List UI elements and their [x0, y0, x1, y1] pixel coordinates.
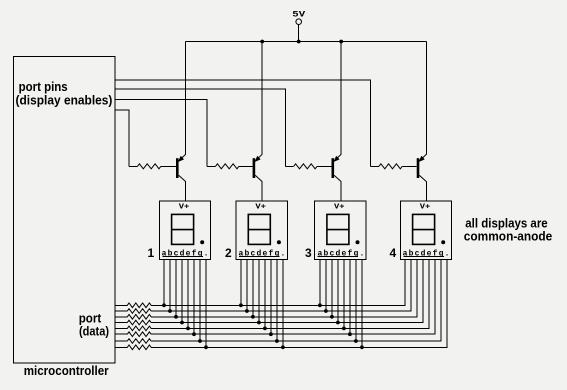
wire: data line 4 from MCU port to DS4 pin d [115, 259, 423, 322]
7-segment display DS1 (common anode) [159, 201, 210, 259]
wire: DS3 pin e to data line 5, with junction [342, 259, 346, 330]
resistor on data line 1 (segment a) [127, 303, 151, 308]
label: all displays are common-anode [464, 215, 553, 243]
transistor Q1 (PNP driver) [176, 154, 186, 181]
wire: DS3 pin g to data line 7, with junction [354, 259, 358, 343]
svg-text:g: g [198, 249, 203, 258]
svg-text:f: f [192, 249, 197, 258]
wire: DS1 pin f to data line 6, with junction [192, 259, 196, 336]
wire: Q4 collector to DS4 V+ [425, 182, 427, 202]
svg-text:e: e [427, 249, 432, 258]
svg-text:g: g [353, 249, 358, 258]
svg-text:a: a [317, 249, 322, 258]
resistor R4 (base resistor of Q4) [371, 164, 417, 169]
wire: DS2 pin f to data line 6, with junction [269, 259, 273, 336]
label: port pins (display enables) [16, 79, 113, 108]
resistor on data line 2 (segment b) [127, 309, 151, 314]
svg-text:c: c [250, 249, 255, 258]
wire: DS1 pin c to data line 3, with junction [174, 259, 178, 318]
wire: display-enable 2 from MCU port pin to R2 [115, 99, 207, 166]
svg-text:b: b [168, 249, 173, 258]
resistor on data line 7 (segment g) [127, 339, 151, 344]
resistor R1 (base resistor of Q1) [129, 164, 176, 169]
svg-text:c: c [415, 249, 420, 258]
svg-text:f: f [347, 249, 352, 258]
wire: DS2 pin a to data line 1, with junction [239, 259, 243, 307]
svg-text:f: f [268, 249, 273, 258]
7-segment display DS3 (common anode) [315, 201, 366, 259]
svg-text:b: b [244, 249, 249, 258]
svg-text:g: g [274, 249, 279, 258]
svg-text:common-anode: common-anode [464, 229, 553, 244]
wire: DS2 pin . to data line 8, with junction [281, 259, 285, 349]
svg-text:V+: V+ [255, 203, 266, 211]
svg-text:4: 4 [390, 246, 397, 260]
wire: data line 8 from MCU port to DS4 pin . [115, 259, 447, 347]
wire: Q2 collector to DS2 V+ [261, 182, 263, 202]
transistor Q4 (PNP driver) [417, 154, 427, 181]
svg-text:c: c [329, 249, 334, 258]
wire: DS1 pin . to data line 8, with junction [204, 259, 208, 349]
svg-text:g: g [439, 249, 444, 258]
svg-text:a: a [162, 249, 167, 258]
svg-text:.: . [445, 249, 450, 258]
7-segment display DS2 (common anode) [236, 201, 287, 259]
svg-text:a: a [238, 249, 243, 258]
wire: data line 3 from MCU port to DS4 pin c [115, 259, 417, 316]
resistor on data line 6 (segment f) [127, 332, 151, 337]
svg-text:V+: V+ [334, 203, 345, 211]
wire: DS2 pin c to data line 3, with junction [251, 259, 255, 318]
resistor R2 (base resistor of Q2) [207, 164, 252, 169]
svg-text:5V: 5V [292, 10, 306, 20]
7-segment display DS4 (common anode) [400, 201, 451, 259]
svg-text:1: 1 [148, 246, 155, 260]
wire: Q1 collector to DS1 V+ [185, 182, 187, 202]
svg-text:2: 2 [225, 246, 232, 260]
wire: DS2 pin e to data line 5, with junction [263, 259, 267, 330]
svg-text:d: d [335, 249, 340, 258]
label: port (data) [79, 311, 109, 339]
svg-text:d: d [180, 249, 185, 258]
wire: DS3 pin f to data line 6, with junction [348, 259, 352, 336]
svg-text:(display enables): (display enables) [16, 92, 113, 107]
svg-text:e: e [262, 249, 267, 258]
wire: display-enable 3 from MCU port pin to R3 [115, 89, 285, 166]
svg-text:3: 3 [305, 246, 312, 260]
wire: data line 1 from MCU port to DS4 pin a [115, 259, 405, 305]
svg-text:f: f [433, 249, 438, 258]
wire: DS3 pin . to data line 8, with junction [360, 259, 364, 349]
wire: DS1 pin e to data line 5, with junction [186, 259, 190, 330]
label: display position digit 4 [390, 246, 397, 260]
wire: display-enable 4 from MCU port pin to R4 [115, 80, 371, 166]
wire: DS1 pin a to data line 1, with junction [162, 259, 166, 307]
wire: display-enable 1 from MCU port pin to R1 [115, 110, 129, 167]
svg-text:b: b [409, 249, 414, 258]
svg-text:V+: V+ [420, 203, 431, 211]
resistor on data line 4 (segment d) [127, 320, 151, 325]
wire: Q3 collector to DS3 V+ [340, 182, 342, 202]
transistor Q2 (PNP driver) [253, 154, 263, 181]
wire: DS3 pin a to data line 1, with junction [318, 259, 322, 307]
svg-text:V+: V+ [179, 203, 190, 211]
svg-text:c: c [174, 249, 179, 258]
wire: data line 7 from MCU port to DS4 pin g [115, 259, 441, 341]
label: display position digit 3 [305, 246, 312, 260]
label: display position digit 1 [148, 246, 155, 260]
wire: DS1 pin d to data line 4, with junction [180, 259, 184, 324]
wire: data line 6 from MCU port to DS4 pin f [115, 259, 435, 334]
wire: DS1 pin g to data line 7, with junction [198, 259, 202, 343]
wire: data line 2 from MCU port to DS4 pin b [115, 259, 411, 311]
resistor R3 (base resistor of Q3) [285, 164, 331, 169]
svg-text:d: d [256, 249, 261, 258]
power: +5V supply terminal [292, 10, 306, 42]
wire: DS2 pin g to data line 7, with junction [275, 259, 279, 343]
svg-text:b: b [323, 249, 328, 258]
IC U1 microcontroller body [14, 57, 116, 364]
wire: data line 5 from MCU port to DS4 pin e [115, 259, 429, 328]
wire: Q2 emitter to +5V rail [261, 42, 263, 155]
wire: +5V rail [186, 41, 427, 43]
svg-text:.: . [204, 249, 209, 258]
label: display position digit 2 [225, 246, 232, 260]
svg-text:.: . [359, 249, 364, 258]
wire: Q4 emitter to +5V rail [425, 42, 427, 155]
junction: rail / Q2 emitter [260, 40, 264, 44]
junction: rail / Q3 emitter [339, 40, 343, 44]
wire: Q3 emitter to +5V rail [340, 42, 342, 155]
wire: DS3 pin d to data line 4, with junction [336, 259, 340, 324]
wire: DS3 pin c to data line 3, with junction [330, 259, 334, 318]
resistor on data line 5 (segment e) [127, 326, 151, 331]
wire: DS2 pin d to data line 4, with junction [257, 259, 261, 324]
svg-text:d: d [421, 249, 426, 258]
wire: DS3 pin b to data line 2, with junction [324, 259, 328, 313]
transistor Q3 (PNP driver) [332, 154, 342, 181]
svg-text:.: . [280, 249, 285, 258]
svg-text:e: e [186, 249, 191, 258]
wire: DS1 pin b to data line 2, with junction [168, 259, 172, 313]
wire: Q1 emitter to +5V rail [185, 42, 187, 155]
wire: DS2 pin b to data line 2, with junction [245, 259, 249, 313]
svg-text:microcontroller: microcontroller [24, 363, 109, 378]
resistor on data line 8 (segment .) [127, 345, 151, 350]
svg-text:e: e [341, 249, 346, 258]
svg-text:(data): (data) [79, 324, 109, 339]
svg-text:a: a [403, 249, 408, 258]
resistor on data line 3 (segment c) [127, 315, 151, 320]
junction: 5V tap on rail [297, 40, 301, 44]
label: microcontroller [24, 363, 109, 378]
